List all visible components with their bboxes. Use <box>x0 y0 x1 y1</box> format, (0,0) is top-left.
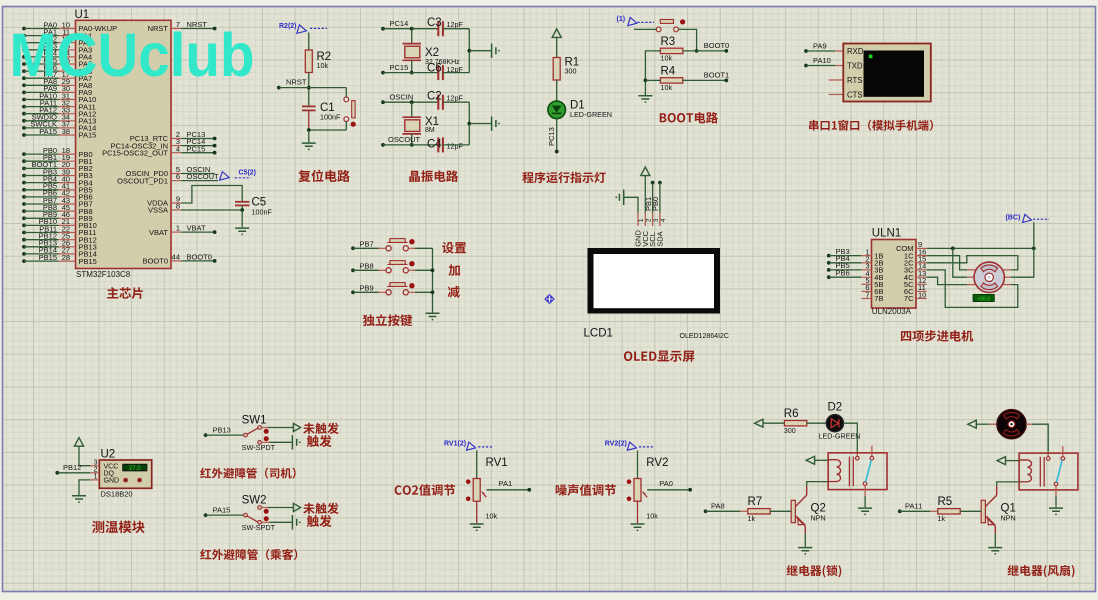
wire PA6 to U1 pin 16 <box>22 69 26 73</box>
LED D1 LED-GREEN <box>548 101 566 119</box>
wire PB10 to U1 pin 21 <box>22 224 26 228</box>
power arrow (fan) <box>968 420 976 428</box>
wire OSCIN row <box>381 100 385 104</box>
wire marker to RV1 <box>476 450 478 478</box>
resistor R2 10k <box>305 50 312 73</box>
terminal RTS stub <box>829 79 844 81</box>
resistor R4 10k <box>660 78 682 83</box>
pointer marker (BC) <box>1023 214 1032 222</box>
wire COM to motor right-middle / marker <box>1011 222 1034 277</box>
wire R1 to D1 <box>556 80 558 101</box>
caption CO2值调节 <box>395 484 455 496</box>
pointer marker RV2(2) <box>627 442 636 450</box>
svg-text:38: 38 <box>62 127 70 136</box>
ULN1 pin COM <box>916 247 927 249</box>
wire PA0 to U1 pin 10 <box>22 27 26 31</box>
wire button to BOOT0 node <box>678 29 696 51</box>
ULN1 pin 1B <box>861 255 871 257</box>
wire PB11 to U1 pin 22 <box>22 231 26 235</box>
terminal CTS stub <box>829 94 844 96</box>
svg-text:PB15: PB15 <box>39 253 57 262</box>
wire PA11 to U1 pin 32 <box>22 105 26 109</box>
wire PB0 to OLED SDA <box>658 181 662 185</box>
svg-text:PA11: PA11 <box>905 501 922 510</box>
wire U2 GND to ground <box>79 480 90 495</box>
svg-text:R2(2): R2(2) <box>279 23 297 30</box>
wire C6 to gnd bus <box>443 72 469 74</box>
wire COM net <box>927 247 1034 249</box>
resistor R5 1k <box>938 509 960 514</box>
ground under C5 <box>235 228 249 235</box>
svg-text:VBAT: VBAT <box>187 224 206 233</box>
pointer marker C5(2) <box>220 172 230 181</box>
svg-text:10k: 10k <box>661 54 673 63</box>
svg-text:DS18B20: DS18B20 <box>101 490 133 499</box>
svg-text:TXD: TXD <box>847 62 863 71</box>
svg-text:12pF: 12pF <box>447 141 464 150</box>
capacitor C3 12pF <box>437 21 439 36</box>
wire PA8 to U1 pin 29 <box>22 83 26 87</box>
wire PA15 to U1 pin 38 <box>22 133 26 137</box>
caption 噪声值调节 <box>556 484 616 496</box>
wire R4 row <box>645 79 660 81</box>
wire R6 to D2 <box>807 422 827 424</box>
wire RV1 to ground <box>476 501 478 523</box>
caption reset circuit <box>298 170 350 182</box>
OLED pins 1-4 <box>637 213 639 226</box>
caption serial window <box>809 120 933 131</box>
capacitor C5 100nF <box>235 201 250 203</box>
svg-text:2: 2 <box>646 218 653 222</box>
wire wiper to PA1 <box>486 489 529 491</box>
svg-text:PB12: PB12 <box>63 463 81 472</box>
push button PB7 <box>351 246 355 250</box>
svg-text:4: 4 <box>660 218 667 222</box>
relay coil <box>828 460 840 482</box>
ULN1 pin 1C <box>916 255 927 257</box>
wire PB13 to U1 pin 26 <box>22 245 26 249</box>
power arrow (coil lock) <box>806 456 814 464</box>
switch SW2 SW-SPDT <box>204 513 208 517</box>
wire relay2 contact to ground <box>1055 486 1057 496</box>
ground (rotated left, OLED) <box>615 190 623 206</box>
svg-text:STM32F103C8: STM32F103C8 <box>76 270 131 279</box>
svg-text:PC15: PC15 <box>390 63 409 72</box>
svg-text:10k: 10k <box>661 83 673 92</box>
svg-text:U2: U2 <box>101 449 116 461</box>
svg-text:R7: R7 <box>748 496 763 508</box>
svg-text:(BC): (BC) <box>1006 214 1021 221</box>
svg-text:1k: 1k <box>748 514 756 523</box>
wire PB7 to U1 pin 43 <box>22 202 26 206</box>
wire fan to relay common <box>1026 423 1032 425</box>
fan / motor <box>997 410 1026 439</box>
push button PB9 <box>351 290 355 294</box>
svg-text:SDA: SDA <box>656 231 665 246</box>
potentiometer RV1 10k <box>473 479 480 502</box>
potentiometer RV2 10k <box>634 479 641 502</box>
svg-text:1: 1 <box>638 218 645 222</box>
caption main chip <box>107 287 143 299</box>
wire PB3 to ULN1 <box>827 254 831 258</box>
caption run indicator <box>522 172 605 184</box>
relay contacts <box>1062 446 1064 457</box>
crystal X2 <box>410 27 414 31</box>
label not-triggered <box>303 423 339 434</box>
svg-text:DQ: DQ <box>104 471 115 478</box>
pointer marker RV1(2) <box>467 442 476 450</box>
svg-text:X2: X2 <box>425 47 439 59</box>
svg-text:PB15: PB15 <box>79 257 97 266</box>
label triggered <box>307 435 332 447</box>
svg-text:OSCIN: OSCIN <box>390 93 414 102</box>
wire Q1 emitter to ground <box>994 533 996 547</box>
svg-text:RTS: RTS <box>847 76 862 85</box>
svg-text:BOOT0: BOOT0 <box>143 257 168 266</box>
wire 4C to motor <box>927 277 968 284</box>
wire 2C to motor <box>927 256 1018 270</box>
wire D1 to PC13 node <box>556 119 558 152</box>
wire PB8 to U1 pin 45 <box>22 209 26 213</box>
capacitor C6 12pF <box>437 65 439 80</box>
U1 pin VDDA wire to C5 <box>171 202 181 204</box>
power arrow (R6) <box>755 419 763 427</box>
relay body <box>1019 453 1078 490</box>
svg-text:PC14: PC14 <box>390 19 409 28</box>
transistor Q1 NPN <box>981 500 985 522</box>
ULN1 pin 7B <box>861 298 871 300</box>
caption infrared (passenger) <box>200 549 297 560</box>
svg-text:SW-SPDT: SW-SPDT <box>242 523 276 532</box>
relay core <box>1039 457 1041 487</box>
stepper step display <box>973 295 994 302</box>
svg-text:RV2(2): RV2(2) <box>605 440 627 447</box>
resistor R1 300 <box>553 58 560 81</box>
wire D2 to relay common <box>844 423 858 452</box>
svg-text:PC15: PC15 <box>187 144 206 153</box>
U1 pin NRST / net NRST <box>171 28 181 30</box>
wire PB4 to U1 pin 40 <box>22 181 26 185</box>
relay body <box>828 453 887 490</box>
pointer marker R2(2) <box>297 25 307 34</box>
wire relay contact to ground <box>864 485 866 496</box>
U1 pin PC15 <box>171 152 181 154</box>
svg-text:VSSA: VSSA <box>148 206 168 215</box>
ULN1 pin 4B <box>861 276 871 278</box>
stepper motor <box>967 269 975 271</box>
wire PA9 <box>804 49 808 53</box>
svg-text:VCC: VCC <box>104 464 119 471</box>
svg-text:OSCOUT: OSCOUT <box>187 172 220 181</box>
wire PB4 to ULN1 <box>827 261 831 265</box>
svg-text:PB6: PB6 <box>836 268 850 277</box>
svg-text:C3: C3 <box>427 17 442 29</box>
push button PB8 <box>351 268 355 272</box>
caption independent keys <box>363 314 412 326</box>
svg-text:12pF: 12pF <box>447 94 464 103</box>
svg-text:PA1: PA1 <box>499 479 513 488</box>
label not-triggered <box>303 503 339 514</box>
wire R3 left to R4 left <box>645 51 660 95</box>
crystal X1 <box>410 100 414 104</box>
wire PA12 to U1 pin 33 <box>22 112 26 116</box>
svg-text:RV1(2): RV1(2) <box>444 440 466 447</box>
wire PC14 row <box>381 27 385 31</box>
wire PB0 to U1 pin 18 <box>22 152 26 156</box>
svg-text:1k: 1k <box>938 514 946 523</box>
wire SW2 NO to arrow <box>261 507 268 509</box>
wire PB6 to ULN1 <box>827 275 831 279</box>
svg-text:LCD1: LCD1 <box>584 328 613 340</box>
wire PA10 <box>804 64 808 68</box>
svg-text:10k: 10k <box>486 512 498 521</box>
relay coil <box>1019 460 1031 482</box>
wire PB12 to U2 DQ <box>55 471 59 475</box>
svg-text:4: 4 <box>176 144 180 153</box>
wire PA3 to U1 pin 13 <box>22 48 26 52</box>
svg-text:28: 28 <box>62 253 70 262</box>
ground (reset) <box>302 143 316 150</box>
U1 pin PC13 <box>171 138 181 140</box>
svg-text:R3: R3 <box>661 36 676 48</box>
wire 3C to motor (bottom loop) <box>927 270 1018 308</box>
svg-text:27.0: 27.0 <box>129 466 141 472</box>
wire marker to RV2 <box>637 450 639 478</box>
capacitor C4 12pF <box>437 137 439 152</box>
ULN1 pin 5B <box>861 283 871 285</box>
wire C3 to gnd bus <box>443 28 469 30</box>
svg-text:PB0: PB0 <box>651 197 660 211</box>
svg-text:7C: 7C <box>904 294 914 303</box>
wire PA11 to R5 <box>898 509 902 513</box>
svg-text:BOOT0: BOOT0 <box>187 253 212 262</box>
svg-text:PA10: PA10 <box>813 56 831 65</box>
display LCD1 OLED12864I2C <box>588 248 721 314</box>
svg-text:300: 300 <box>784 426 796 435</box>
ULN1 pin 6B <box>861 290 871 292</box>
virtual terminal (serial window) <box>843 44 931 102</box>
label set <box>442 242 466 254</box>
U1 pin VBAT <box>171 231 181 233</box>
wire PB1 to OLED SCL <box>651 181 655 185</box>
ULN1 pin 2C <box>916 262 927 264</box>
wire wiper to PA0 <box>647 489 690 491</box>
svg-text:C2: C2 <box>427 91 442 103</box>
svg-text:1: 1 <box>176 224 180 233</box>
svg-text:NRST: NRST <box>286 78 307 87</box>
svg-text:RV1: RV1 <box>486 457 508 469</box>
wire R3 to BOOT0 <box>683 50 727 52</box>
svg-text:D2: D2 <box>828 402 843 414</box>
wire button/C1 bottom <box>309 129 347 131</box>
wire BOOT1 to U1 pin 20 <box>22 167 26 171</box>
svg-text:RXD: RXD <box>847 47 864 56</box>
svg-text:R5: R5 <box>938 496 953 508</box>
wire PB6 to U1 pin 42 <box>22 195 26 199</box>
wire PA1 to U1 pin 11 <box>22 34 26 38</box>
power arrow (OLED VCC) <box>641 167 650 176</box>
ULN1 pin 3B <box>861 269 871 271</box>
svg-text:BOOT1: BOOT1 <box>704 71 729 80</box>
push button (boot) <box>634 28 656 30</box>
U1 pin OSCIN <box>171 173 181 175</box>
svg-text:OLED12864I2C: OLED12864I2C <box>680 333 729 340</box>
svg-text:CTS: CTS <box>847 91 863 100</box>
svg-text:NPN: NPN <box>811 514 826 523</box>
relay contacts <box>871 446 873 457</box>
svg-text:SW-SPDT: SW-SPDT <box>242 443 276 452</box>
wire SWCLK to U1 pin 37 <box>22 126 26 130</box>
svg-text:NPN: NPN <box>1001 514 1016 523</box>
pointer marker (1) <box>628 17 637 25</box>
push button (reset) <box>345 88 347 97</box>
wire R2 to NRST node <box>308 73 310 107</box>
wire SW2 NC to ground <box>261 521 269 523</box>
wire SWDIO to U1 pin 34 <box>22 119 26 123</box>
wire PB5 to U1 pin 41 <box>22 188 26 192</box>
svg-text:+88.8: +88.8 <box>977 296 990 302</box>
U1 pin OSCOUT <box>171 180 181 182</box>
resistor R7 1k <box>748 509 770 514</box>
keys common wire to ground <box>432 248 434 312</box>
svg-text:PA15: PA15 <box>213 506 231 515</box>
label triggered <box>307 515 332 527</box>
wire PC15 row <box>381 71 385 75</box>
wire PA4 to U1 pin 14 <box>22 55 26 59</box>
svg-text:10: 10 <box>918 290 926 299</box>
relay blade <box>866 460 872 482</box>
LED D2 LED-GREEN <box>826 415 843 432</box>
wire PA5 to U1 pin 15 <box>22 62 26 66</box>
wire PB12 to U1 pin 25 <box>22 238 26 242</box>
wire R7 to Q2 base <box>770 510 791 512</box>
svg-text:GND: GND <box>104 478 120 485</box>
svg-text:LED-GREEN: LED-GREEN <box>819 432 861 441</box>
ULN1 pin 6C <box>916 290 927 292</box>
wire PA8 to R7 <box>704 509 708 513</box>
label minus <box>448 286 460 298</box>
svg-text:PA15: PA15 <box>39 127 57 136</box>
svg-text:PA0: PA0 <box>659 479 673 488</box>
svg-text:7B: 7B <box>874 294 883 303</box>
wire R5 to Q1 base <box>960 510 981 512</box>
caption crystal circuit <box>409 170 458 182</box>
wire PB9 to U1 pin 46 <box>22 216 26 220</box>
svg-text:PB9: PB9 <box>360 283 374 292</box>
svg-text:C4: C4 <box>427 139 442 151</box>
svg-text:10k: 10k <box>646 512 658 521</box>
U1 pin VSSA wire <box>171 209 181 211</box>
svg-text:100nF: 100nF <box>320 113 341 122</box>
svg-text:SW1: SW1 <box>242 415 267 427</box>
ULN1 pin 4C <box>916 276 927 278</box>
svg-text:SW2: SW2 <box>242 495 267 507</box>
svg-text:(1): (1) <box>617 16 626 23</box>
caption temperature module <box>92 521 145 534</box>
caption relay lock <box>787 565 842 577</box>
svg-text:PB13: PB13 <box>213 426 231 435</box>
svg-text:7: 7 <box>865 290 869 299</box>
svg-text:8M: 8M <box>425 127 435 134</box>
wire PB14 to U1 pin 27 <box>22 252 26 256</box>
svg-text:PC15-OSC32_OUT: PC15-OSC32_OUT <box>102 148 168 157</box>
svg-text:PB7: PB7 <box>360 239 374 248</box>
resistor R6 300 <box>784 421 806 426</box>
svg-text:2: 2 <box>94 467 98 474</box>
svg-text:ULN2003A: ULN2003A <box>872 307 912 316</box>
caption relay fan <box>1008 565 1075 578</box>
gnd bus block1 <box>468 29 470 73</box>
wire PB15 to U1 pin 28 <box>22 259 26 263</box>
U1 pin PC14 <box>171 145 181 147</box>
blue origin marker <box>544 294 555 304</box>
svg-text:U1: U1 <box>75 9 90 21</box>
svg-text:44: 44 <box>172 253 180 262</box>
svg-text:R6: R6 <box>784 408 799 420</box>
svg-text:300: 300 <box>565 67 577 76</box>
ground (rotated) block2 <box>492 116 500 130</box>
svg-text:PA9: PA9 <box>813 41 827 50</box>
switch SW1 SW-SPDT <box>204 433 208 437</box>
ULN1 pin 3C <box>916 269 927 271</box>
wire marker to R2 <box>308 33 310 51</box>
wire PB3 to U1 pin 39 <box>22 174 26 178</box>
wire OSCOUT row <box>381 143 385 147</box>
svg-text:LED-GREEN: LED-GREEN <box>570 110 612 119</box>
U1 pin BOOT0 <box>171 260 181 262</box>
svg-text:BOOT0: BOOT0 <box>704 41 729 50</box>
relay core <box>848 457 850 487</box>
svg-text:3: 3 <box>653 218 660 222</box>
caption BOOT circuit <box>660 112 718 124</box>
svg-text:R4: R4 <box>661 66 676 78</box>
ULN1 pin 7C <box>916 298 927 300</box>
wire power to R1 <box>556 37 558 57</box>
svg-text:ULN1: ULN1 <box>872 228 901 240</box>
ULN1 pin 5C <box>916 283 927 285</box>
ground (boot) <box>638 96 652 103</box>
wire PB1 to U1 pin 19 <box>22 159 26 163</box>
power arrow (coil fan) <box>997 457 1005 465</box>
transistor Q2 NPN <box>791 500 795 522</box>
svg-text:8: 8 <box>176 202 180 211</box>
caption OLED display <box>624 351 695 362</box>
wire PA2 to U1 pin 12 <box>22 41 26 45</box>
power arrow (U2) <box>75 438 84 447</box>
svg-text:OSCOUT_PD1: OSCOUT_PD1 <box>117 176 168 185</box>
capacitor C2 12pF <box>437 95 439 110</box>
wire coil to Q2 collector <box>807 482 829 487</box>
svg-text:1: 1 <box>94 474 98 481</box>
svg-text:PA15: PA15 <box>79 131 97 140</box>
wire coil to Q1 collector <box>997 482 1019 487</box>
relay blade <box>1057 460 1063 482</box>
node NRST <box>307 86 311 90</box>
svg-text:MCUclub: MCUclub <box>10 21 255 89</box>
svg-text:OSCOUT: OSCOUT <box>388 135 421 144</box>
caption stepper motor <box>901 330 973 342</box>
svg-text:C6: C6 <box>427 62 442 74</box>
svg-text:PC13: PC13 <box>547 127 556 146</box>
caption infrared (driver) <box>200 468 295 479</box>
capacitor C1 100nF <box>302 105 316 107</box>
svg-text:PB8: PB8 <box>360 261 374 270</box>
svg-text:3: 3 <box>94 460 98 467</box>
ground (rotated) block1 <box>492 44 500 58</box>
wire PA9 to U1 pin 30 <box>22 91 26 95</box>
svg-text:10k: 10k <box>317 61 329 70</box>
wire SW1 NO to arrow <box>261 427 268 429</box>
